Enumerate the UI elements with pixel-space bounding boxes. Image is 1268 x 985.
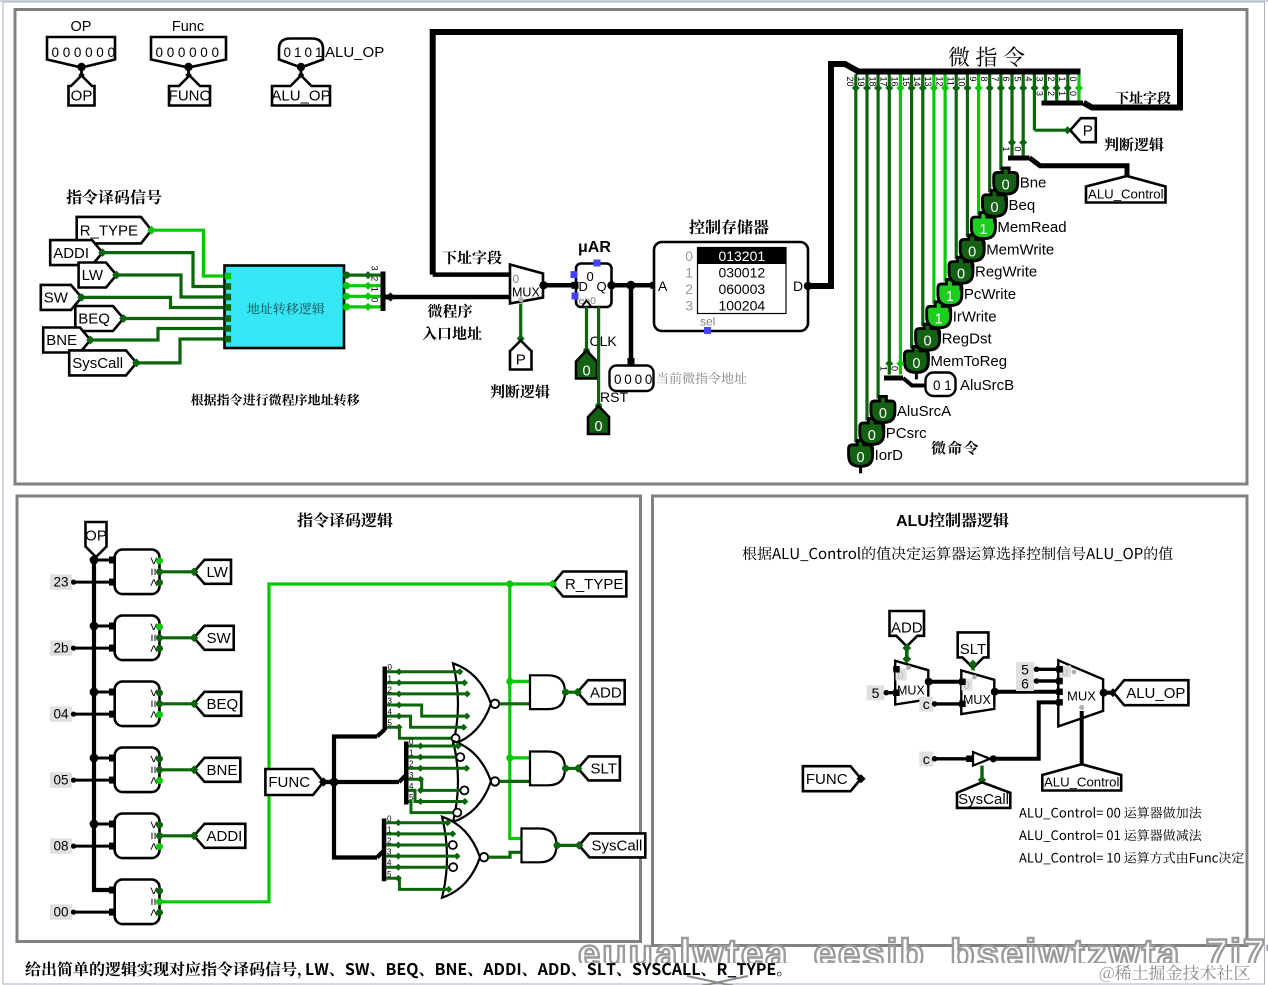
svg-text:0: 0: [645, 372, 653, 387]
svg-text:11: 11: [945, 77, 955, 86]
wire comparator to SW: [160, 636, 195, 639]
svg-text:0: 0: [990, 200, 998, 216]
probe IrWrite (bit 13 = 1): [927, 302, 997, 335]
svg-text:4: 4: [387, 859, 392, 868]
svg-text:SW: SW: [44, 290, 69, 307]
nor gate 1: [453, 663, 499, 744]
splitter FUNC bits (cluster SLT): [399, 742, 409, 805]
svg-text:0: 0: [624, 372, 632, 387]
label 控制存储器: [689, 219, 768, 234]
svg-text:00: 00: [53, 905, 68, 920]
svg-text:0: 0: [74, 45, 82, 60]
probe Bne (bit 7 = 0): [994, 168, 1047, 201]
svg-text:MUX: MUX: [963, 693, 991, 707]
register uAR (microaddress register): [572, 264, 616, 308]
svg-text:14: 14: [912, 77, 922, 87]
wire junction down to current address probe: [628, 285, 635, 365]
svg-text:BEQ: BEQ: [207, 696, 239, 713]
wire and3 to SysCall tunnel: [557, 844, 580, 847]
wire mux2 to mux3: [995, 690, 1059, 694]
probe IorD (bit 20 = 0): [849, 440, 904, 473]
splitter ALU_Control (2-bit): [1001, 139, 1029, 161]
label ALU_Control=00 line: [1019, 807, 1201, 820]
tunnel LW: [190, 560, 231, 584]
svg-text:ALU_OP: ALU_OP: [325, 44, 384, 61]
wire microinstruction bit 8: [979, 75, 994, 193]
svg-text:D: D: [793, 278, 803, 294]
label ALU_Control=10 line: [1019, 852, 1244, 865]
tunnel BEQ: [190, 692, 242, 716]
svg-text:μAR: μAR: [578, 239, 611, 256]
label CLK: [590, 333, 618, 349]
svg-text:1: 1: [979, 222, 987, 238]
tunnel OP (decoder input): [85, 522, 107, 557]
wire nor3 to and3: [488, 852, 521, 857]
svg-text:0: 0: [1062, 667, 1068, 679]
svg-text:OP: OP: [85, 528, 107, 545]
svg-text:0: 0: [156, 45, 164, 60]
wire and1 to ADD tunnel: [566, 691, 579, 694]
wire MUX output to uAR D: [544, 283, 577, 288]
wire microinstruction bit 5: [1012, 75, 1027, 156]
wire R_TYPE vertical to AND gates (bright): [506, 584, 530, 839]
svg-text:08: 08: [53, 839, 68, 854]
svg-text:ALU_Control: ALU_Control: [1044, 775, 1120, 790]
comparator 2 (OP == 2b): [90, 616, 163, 661]
tunnel ADD (decoder output): [573, 680, 625, 704]
wire microinstruction bit 12: [934, 75, 949, 282]
svg-text:0: 0: [1002, 178, 1010, 194]
wire microinstruction bit 10: [957, 75, 972, 237]
wire SW to decode box: [82, 297, 225, 307]
svg-text:ADD: ADD: [590, 684, 622, 701]
svg-text:A: A: [658, 278, 668, 294]
constant 6 (mux3): [1016, 676, 1058, 692]
svg-text:1: 1: [315, 45, 323, 60]
svg-text:SysCall: SysCall: [72, 355, 123, 372]
label bottom description: [25, 961, 300, 978]
mux MUX2 (SLT path): [959, 670, 999, 714]
input pin RST (value 0): [588, 406, 609, 435]
svg-text:LW: LW: [82, 267, 104, 284]
wire comparator to ADDI: [160, 834, 195, 837]
svg-text:0: 0: [587, 269, 594, 284]
wire OP pin to tunnel: [80, 67, 83, 79]
input pin Func (6-bit, value 000000): [151, 19, 226, 78]
svg-text:Bne: Bne: [1020, 175, 1047, 192]
svg-text:9: 9: [968, 77, 978, 82]
mux MUX3 (final ALU_OP select): [1056, 660, 1107, 726]
probe PcWrite (bit 12 = 1): [938, 280, 1016, 313]
splitter 微指令 (21-bit fanout): [856, 69, 1081, 75]
label 微命令: [931, 441, 978, 455]
svg-text:SLT: SLT: [591, 761, 617, 778]
wires FUNC bits into NOR gate 2: [409, 738, 471, 817]
label 指令译码逻辑 (panel title): [297, 512, 392, 527]
input pin CLK (value 0): [576, 351, 597, 380]
wire microinstruction bit 7: [990, 75, 1005, 171]
svg-text:100204: 100204: [718, 297, 765, 313]
mux MUX1 (ADD/5): [893, 661, 933, 705]
svg-text:0: 0: [685, 248, 693, 264]
tunnel P (top right): [1070, 118, 1096, 142]
svg-text:5: 5: [409, 793, 414, 802]
svg-text:013201: 013201: [718, 248, 765, 264]
svg-text:2: 2: [387, 837, 392, 846]
watermark 稀土掘金 credit: [1100, 965, 1250, 982]
svg-text:4: 4: [1024, 77, 1034, 82]
tunnel FUNC (top): [169, 76, 211, 106]
svg-text:AluSrcA: AluSrcA: [897, 403, 951, 420]
wire decode box output bit 1: [343, 287, 381, 301]
wire microinstruction bit 19: [856, 75, 871, 421]
wire microinstruction bit 15: [901, 75, 916, 349]
wire microinstruction bit 0: [1068, 75, 1083, 104]
wire Func pin to tunnel: [187, 67, 190, 79]
svg-text:2: 2: [370, 276, 380, 281]
wire mux3 to ALU_OP tunnel: [1104, 688, 1118, 697]
svg-text:ADDI: ADDI: [53, 245, 89, 262]
wire microinstruction bit 2: [1046, 75, 1061, 104]
svg-text:3: 3: [409, 771, 414, 780]
tunnel R_TYPE (decoder output): [548, 572, 626, 597]
wire CLK: [583, 307, 590, 354]
wire comparator to BEQ: [160, 702, 195, 705]
svg-text:0: 0: [857, 450, 865, 466]
svg-text:1: 1: [946, 289, 954, 305]
wire comparator6 equal output to R_TYPE (bright): [160, 584, 553, 902]
buffer gate (SysCall): [966, 752, 997, 766]
label 根据ALU_Control的值决定运算器运算选择控制信号ALU_OP的值: [743, 546, 1173, 561]
wire microinstruction bit 6: [1001, 75, 1016, 156]
svg-text:P: P: [1083, 122, 1093, 139]
wire SysCall to decode box: [137, 339, 225, 363]
svg-text:1: 1: [409, 749, 414, 758]
splitter (4-bit combine) at decode box output: [381, 272, 396, 312]
svg-text:MemWrite: MemWrite: [986, 241, 1054, 258]
svg-text:1: 1: [935, 311, 943, 327]
label 下址字段 (left): [442, 250, 501, 264]
nor gate 3: [442, 817, 488, 898]
constant 00: [50, 904, 116, 920]
svg-text:0: 0: [1068, 91, 1078, 96]
tunnel ALU_OP (output): [1114, 680, 1189, 705]
svg-text:BEQ: BEQ: [78, 311, 110, 328]
constant 08: [50, 838, 116, 854]
junction R_TYPE to gates: [506, 580, 513, 587]
svg-text:6: 6: [1021, 676, 1029, 692]
svg-text:5: 5: [872, 685, 880, 701]
comparator 3 (OP == 04): [90, 682, 163, 727]
svg-text:FUNC: FUNC: [806, 771, 848, 788]
wire comparator to BNE: [160, 768, 195, 771]
probe AluSrcB (value 01): [926, 373, 1015, 397]
tunnel SysCall: [69, 350, 141, 375]
svg-text:0: 0: [409, 738, 414, 747]
tunnel ADDI: [190, 824, 246, 848]
svg-text:0: 0: [212, 45, 220, 60]
wire microinstruction bit 4: [1024, 75, 1039, 131]
constant 2b: [50, 640, 116, 656]
tunnel SW: [190, 626, 234, 650]
comparator 5 (OP == 08): [90, 814, 163, 859]
svg-text:0: 0: [284, 45, 292, 60]
svg-text:3: 3: [685, 297, 693, 313]
wire buffer select to SysCall tunnel: [978, 766, 986, 785]
probe current microinstruction address (0000): [610, 366, 654, 392]
and gate 1 (ADD): [530, 675, 569, 709]
tunnel R_TYPE: [77, 217, 156, 244]
svg-text:0: 0: [200, 45, 208, 60]
wire microinstruction bit 9: [968, 75, 983, 215]
svg-text:2: 2: [685, 281, 693, 297]
wire R_TYPE to decode box (bright): [152, 230, 225, 276]
wire microinstruction bit 1: [1057, 75, 1072, 104]
wire decode box output bit 0: [343, 297, 381, 311]
constant 5 (mux1): [867, 685, 896, 701]
wire microinstruction bit 13: [923, 75, 938, 304]
wire feedback loop (next-address field bus): [433, 32, 1180, 275]
tunnel ADDI: [50, 240, 107, 265]
svg-text:2: 2: [409, 760, 414, 769]
svg-text:5: 5: [388, 719, 393, 728]
svg-text:SysCall: SysCall: [592, 838, 643, 855]
wires FUNC bits into NOR gate 1: [387, 663, 471, 742]
tunnel BNE: [43, 328, 95, 353]
svg-text:0 1: 0 1: [933, 378, 952, 393]
probe AluSrcA (bit 18 = 0): [871, 397, 951, 430]
svg-text:OP: OP: [71, 19, 92, 35]
svg-text:1: 1: [294, 45, 302, 60]
svg-text:ALU: ALU: [896, 513, 929, 530]
wire microinstruction bit 3: [1035, 75, 1050, 104]
wire MUX select to tunnel P: [517, 304, 525, 343]
tunnel FUNC (decoder input): [265, 769, 328, 795]
selection handle (blue) uAR left upper: [571, 271, 578, 278]
svg-text:R_TYPE: R_TYPE: [565, 576, 623, 593]
input pin OP (6-bit, value 000000): [47, 19, 115, 78]
wires FUNC bits into NOR gate 3: [386, 814, 460, 893]
svg-text:Beq: Beq: [1009, 197, 1036, 214]
tunnel SysCall (alu-control input): [957, 782, 1010, 808]
svg-text:0: 0: [582, 364, 590, 380]
splitter AluSrcB (2-bit): [879, 360, 926, 386]
label 当前微指令地址: [657, 372, 746, 384]
selection handle (blue) ROM sel: [704, 327, 711, 334]
wire ALU_Control splitter to tunnel: [1030, 158, 1128, 176]
svg-text:0: 0: [595, 419, 603, 435]
comparator 1 (OP == 23): [90, 550, 163, 595]
tunnel SW: [41, 285, 86, 310]
svg-text:3: 3: [1035, 77, 1045, 82]
svg-text:16: 16: [890, 77, 900, 87]
svg-text:CLK: CLK: [590, 333, 618, 349]
svg-text:060003: 060003: [718, 281, 765, 297]
svg-text:BNE: BNE: [207, 762, 238, 779]
svg-text:Func: Func: [172, 19, 204, 35]
wire LW to decode box: [117, 275, 225, 297]
tunnel ALU_OP (top): [271, 76, 330, 106]
svg-text:0: 0: [108, 45, 116, 60]
and gate 3 (SysCall): [522, 829, 561, 863]
wire comparator to LW: [160, 570, 195, 573]
svg-text:3: 3: [388, 697, 393, 706]
svg-text:13: 13: [923, 77, 933, 87]
svg-text:0: 0: [957, 267, 965, 283]
wire microinstruction bit 17: [879, 75, 894, 375]
svg-text:17: 17: [879, 77, 889, 87]
tunnel ALU_Control (top right): [1086, 176, 1166, 203]
constant 05: [50, 772, 116, 788]
svg-text:ADD: ADD: [891, 619, 923, 636]
svg-text:3: 3: [387, 848, 392, 857]
tunnel SysCall (decoder output): [575, 833, 646, 857]
tunnel LW: [79, 263, 121, 288]
svg-text:19: 19: [856, 77, 866, 87]
wire microinstruction bit 18: [867, 75, 882, 399]
svg-text:7: 7: [990, 77, 1000, 82]
svg-text:10: 10: [957, 77, 967, 87]
svg-text:2: 2: [1046, 91, 1056, 96]
wire ROM D output up to splitter: [804, 64, 859, 290]
svg-text:PcWrite: PcWrite: [964, 286, 1016, 303]
svg-text:1: 1: [1001, 147, 1011, 152]
svg-text:15: 15: [901, 77, 911, 87]
comparator 6 (OP == 00): [109, 880, 163, 925]
svg-text:BNE: BNE: [46, 332, 77, 349]
label ALU控制器逻辑 (panel title): [896, 512, 1009, 530]
probe ALU_OP (4-bit, value 0101): [279, 39, 384, 79]
svg-text:MemRead: MemRead: [997, 219, 1066, 236]
svg-text:IorD: IorD: [875, 447, 904, 464]
probe MemRead (bit 9 = 1): [971, 213, 1066, 246]
svg-text:2: 2: [1046, 77, 1056, 82]
tunnel FUNC (bottom right): [803, 766, 866, 791]
label bottom signal list: [306, 963, 781, 978]
svg-text:AluSrcB: AluSrcB: [960, 377, 1014, 394]
label ALU_Control=01 line: [1019, 829, 1201, 842]
svg-text:SW: SW: [207, 630, 232, 647]
label 指令译码信号: [66, 189, 161, 204]
svg-text:1: 1: [387, 825, 392, 834]
svg-text:1: 1: [1057, 77, 1067, 82]
svg-text:SLT: SLT: [960, 641, 986, 658]
probe MemToReg (bit 15 = 0): [904, 346, 1007, 379]
svg-text:Q: Q: [597, 279, 607, 294]
svg-text:18: 18: [867, 77, 877, 87]
svg-text:0: 0: [968, 244, 976, 260]
svg-text:ALU_OP: ALU_OP: [271, 88, 330, 105]
svg-text:OP: OP: [71, 88, 93, 105]
mux MUX (next address select): [510, 265, 548, 304]
svg-text:0: 0: [1012, 147, 1022, 152]
svg-text:PCsrc: PCsrc: [886, 425, 927, 442]
wire microinstruction bit 14: [912, 75, 927, 327]
wire mux3 select to ALU_Control tunnel: [1080, 711, 1084, 765]
svg-text:MemToReg: MemToReg: [930, 353, 1007, 370]
svg-text:0: 0: [635, 372, 643, 387]
constant c (buffer): [919, 751, 973, 767]
svg-text:0: 0: [388, 663, 393, 672]
svg-text:sel: sel: [700, 315, 715, 329]
wire feedback to MUX input 0: [433, 272, 510, 277]
svg-text:3: 3: [370, 266, 380, 271]
wire uAR Q to ROM A: [612, 281, 658, 290]
svg-text:1: 1: [879, 366, 889, 371]
comparator 4 (OP == 05): [90, 748, 163, 793]
label 判断逻辑 (right): [1104, 137, 1163, 151]
splitter FUNC bits (cluster SysCall): [377, 819, 386, 882]
svg-text:2b: 2b: [53, 641, 68, 656]
register uAR label: [578, 239, 611, 256]
svg-text:12: 12: [934, 77, 944, 87]
svg-text:MUX: MUX: [1067, 689, 1096, 704]
watermark graffiti band: [578, 932, 1268, 976]
wire nor2 to and2: [500, 780, 531, 783]
wire splitter to MUX input 1 (entry address bus): [391, 295, 510, 300]
wire ALU_OP probe to tunnel: [300, 67, 303, 79]
wire and2 to SLT tunnel: [566, 767, 579, 770]
wire ADDI to decode box: [103, 253, 225, 287]
svg-text:3: 3: [1035, 91, 1045, 96]
probe MemWrite (bit 10 = 0): [960, 235, 1054, 268]
probe Beq (bit 8 = 0): [983, 190, 1036, 223]
tunnel SLT (alu-control input): [958, 632, 989, 668]
svg-text:5: 5: [1012, 77, 1022, 82]
svg-text:04: 04: [53, 707, 69, 722]
tunnel ADD (alu-control input): [890, 611, 925, 646]
svg-text:c: c: [923, 696, 930, 712]
svg-text:4: 4: [409, 782, 414, 791]
svg-text:P: P: [516, 352, 526, 369]
wire microinstruction bit 20: [845, 75, 860, 443]
svg-text:0: 0: [1068, 77, 1078, 82]
svg-text:5: 5: [387, 870, 392, 879]
wire FUNC bus: [324, 737, 400, 858]
svg-text:0: 0: [52, 45, 60, 60]
wire RST: [595, 307, 602, 409]
wire bit4 to tunnel P: [1034, 126, 1071, 134]
wire mux1 to mux2: [929, 680, 962, 684]
nor gate 2: [453, 741, 499, 822]
constant 04: [50, 706, 116, 722]
svg-text:MUX: MUX: [512, 286, 540, 300]
selection handle (blue) uAR left lower: [572, 293, 579, 300]
svg-text:R_TYPE: R_TYPE: [80, 222, 138, 239]
svg-text:1: 1: [388, 674, 393, 683]
svg-text:0: 0: [924, 334, 932, 350]
svg-text:8: 8: [979, 77, 989, 82]
label 根据指令进行微程序地址转移: [191, 393, 360, 405]
wire BNE to decode box: [91, 329, 225, 341]
svg-text:SysCall: SysCall: [958, 791, 1009, 808]
svg-text:0: 0: [387, 814, 392, 823]
wire BEQ to decode box: [124, 317, 225, 320]
tunnel P (below MUX): [510, 341, 532, 370]
wire microinstruction bit 16: [890, 75, 905, 375]
label 下址字段 (top right): [1115, 91, 1170, 104]
and gate 2 (SLT): [530, 752, 569, 786]
svg-text:0: 0: [868, 428, 876, 444]
selection handle (blue) uAR top: [594, 260, 601, 267]
svg-text:030012: 030012: [718, 264, 765, 280]
watermark scissors doodle: [687, 976, 748, 985]
label 微程序/入口地址 (microprogram entry address): [422, 304, 481, 341]
constant 5 (mux3): [1016, 661, 1058, 677]
svg-text:05: 05: [53, 773, 68, 788]
probe RegDst (bit 14 = 0): [916, 324, 993, 357]
svg-text:0: 0: [63, 45, 71, 60]
